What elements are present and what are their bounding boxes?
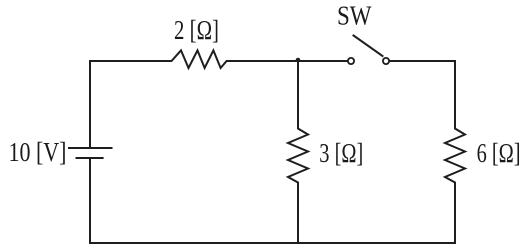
svg-text:SW: SW [337, 0, 372, 30]
svg-text:3 [Ω]: 3 [Ω] [319, 138, 363, 168]
svg-text:10 [V]: 10 [V] [9, 137, 67, 167]
svg-text:6 [Ω]: 6 [Ω] [477, 138, 521, 168]
svg-text:2 [Ω]: 2 [Ω] [174, 15, 219, 45]
